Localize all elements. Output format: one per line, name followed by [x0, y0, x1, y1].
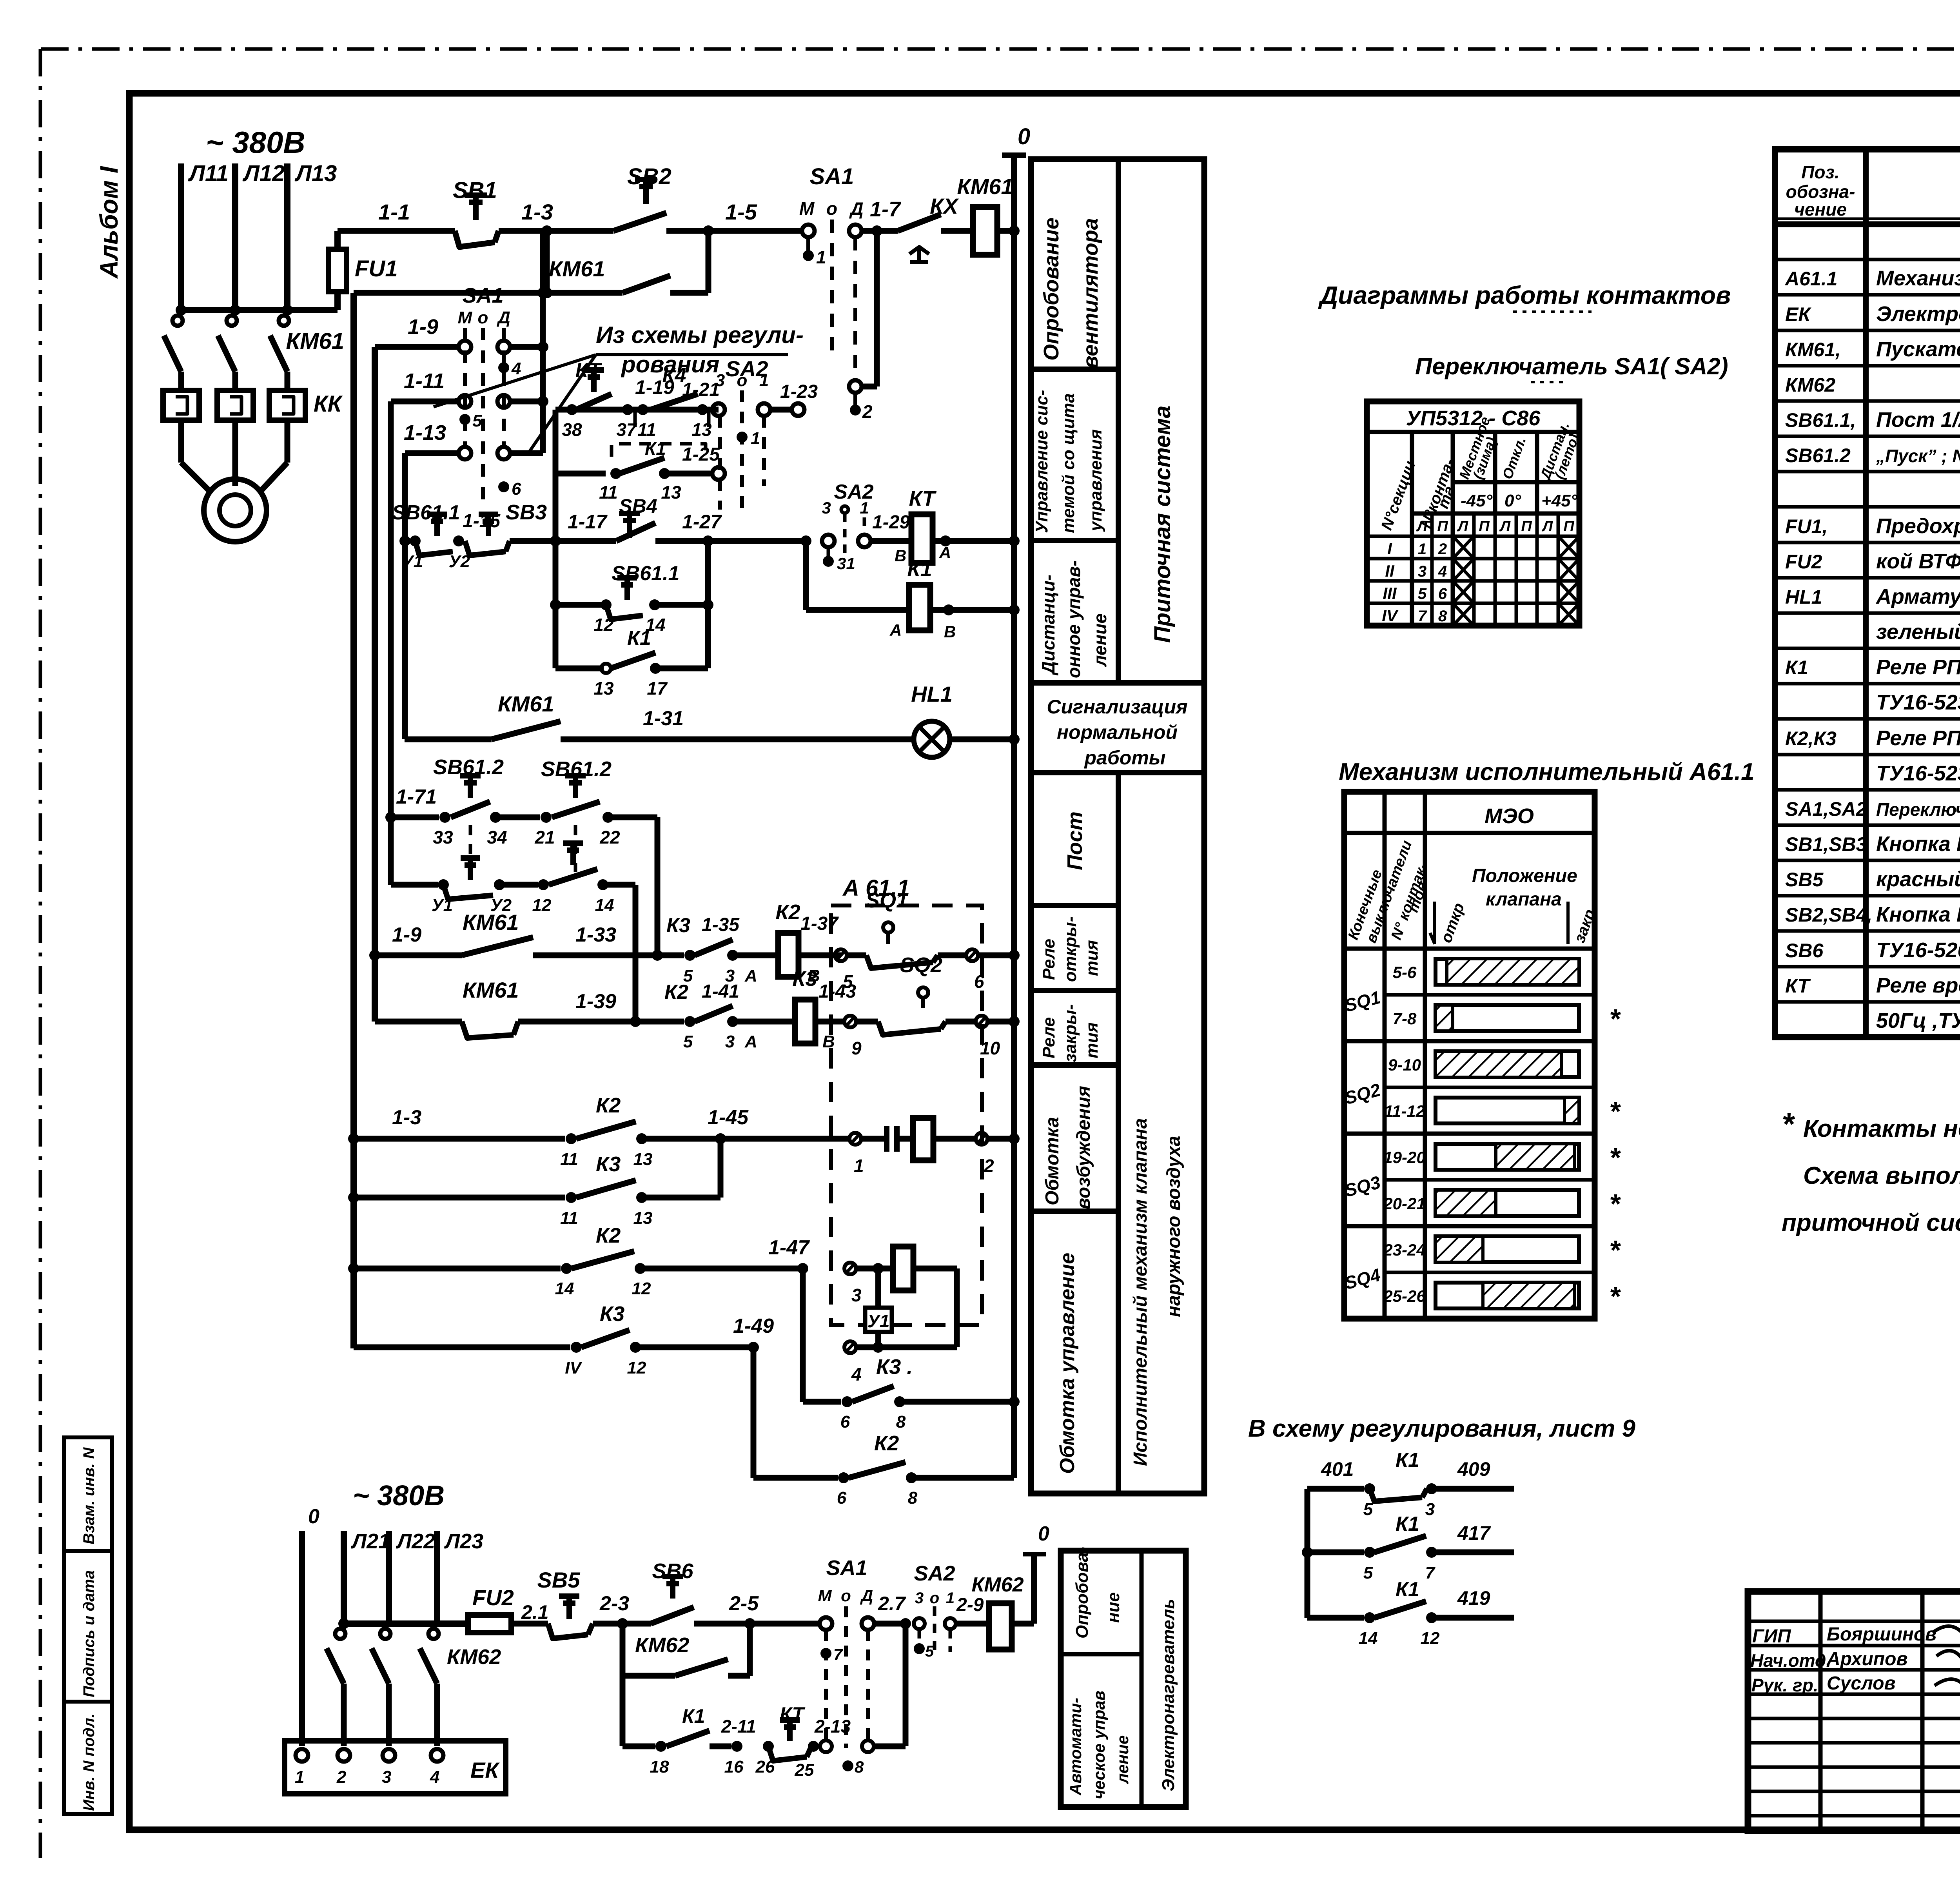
svg-text:ТУ16-520. 407-79: ТУ16-520. 407-79 [1876, 938, 1960, 962]
svg-text:М: М [818, 1586, 832, 1605]
svg-text:К2: К2 [596, 1094, 621, 1117]
svg-text:КХ: КХ [930, 194, 959, 218]
svg-text:1-21: 1-21 [682, 379, 720, 400]
svg-text:о: о [826, 198, 837, 219]
MEO travel bars [1436, 959, 1579, 985]
svg-text:К1: К1 [1785, 657, 1808, 679]
wire vertical 1621 [633, 885, 639, 1022]
svg-text:К1: К1 [1396, 1513, 1419, 1535]
node 1-3 [541, 225, 552, 236]
svg-text:2: 2 [984, 1156, 994, 1176]
svg-text:Переключатель УП5312-С86У3,ТУ1: Переключатель УП5312-С86У3,ТУ16-524.074-… [1876, 799, 1960, 820]
contact KM61 with break rung 1-39 [462, 1022, 514, 1038]
wire vertical from 1-49 [751, 1347, 757, 1478]
svg-text:IV: IV [565, 1358, 583, 1377]
relay contact K1 rung 417 [1374, 1536, 1426, 1552]
svg-text:Пост 1/2”, ПКЕ 212-243 ; N1-: Пост 1/2”, ПКЕ 212-243 ; N1-Ц, 4, 1р+13, [1876, 408, 1960, 432]
wire rung KT K4 [555, 407, 719, 413]
svg-text:13: 13 [633, 1208, 653, 1228]
svg-text:К2: К2 [664, 981, 688, 1003]
wire vertical 2.7 to KT rung [903, 1624, 909, 1746]
wire rung SB61.1-SB3 [405, 538, 410, 544]
svg-text:Д: Д [860, 1586, 873, 1605]
svg-text:Диаграммы работы контактов: Диаграммы работы контактов [1318, 281, 1731, 309]
svg-text:КТ: КТ [780, 1703, 806, 1725]
relay contact K2 14-12 [572, 1251, 634, 1268]
svg-text:Из схемы регули-: Из схемы регули- [596, 322, 804, 348]
svg-text:0: 0 [1038, 1522, 1049, 1545]
svg-text:Л11: Л11 [188, 161, 229, 186]
switch SA1 contacts on rung 1 [802, 225, 815, 237]
svg-text:18: 18 [650, 1757, 669, 1776]
function label table [1031, 159, 1204, 1493]
svg-text:Опробова-: Опробова- [1073, 1547, 1092, 1639]
svg-text:Л22: Л22 [396, 1530, 435, 1553]
wire 1-5 [666, 228, 802, 234]
push-button contact 12-14 [549, 869, 597, 885]
wire rung 1-45 [354, 1136, 565, 1142]
phase line L23 [434, 1531, 440, 1624]
svg-text:Пост: Пост [1063, 811, 1087, 870]
svg-text:3: 3 [715, 371, 725, 390]
switch SA1 contact 1-11 [459, 395, 471, 408]
svg-text:1-11: 1-11 [404, 369, 445, 393]
wire rung 1-39 [375, 1019, 462, 1025]
svg-text:38: 38 [562, 419, 582, 440]
svg-text:Взам. инв. N: Взам. инв. N [80, 1447, 98, 1544]
svg-text:Пускатель магнитный: Пускатель магнитный [1876, 338, 1960, 361]
svg-text:Предохранитель ППТ-10, с плав: Предохранитель ППТ-10, с плавкой Встав- [1876, 514, 1960, 538]
wire vertical 1-27 [705, 541, 711, 668]
svg-text:1-29: 1-29 [872, 512, 910, 533]
svg-text:1: 1 [860, 499, 869, 517]
relay coil K3 [795, 1000, 815, 1043]
contactor coil KM61 [941, 228, 973, 234]
svg-text:34: 34 [487, 827, 507, 847]
svg-text:2-13: 2-13 [814, 1716, 851, 1737]
wire K1 ladder rail [1305, 1489, 1310, 1618]
svg-text:HL1: HL1 [911, 682, 953, 706]
title block frame [1748, 1591, 1960, 1831]
svg-text:*: * [1782, 1107, 1795, 1141]
wire vertical from 1-47 [800, 1268, 806, 1402]
svg-text:ление: ление [1113, 1735, 1132, 1784]
actuator block A61.1 dashed box [831, 905, 982, 1325]
svg-text:Л21: Л21 [350, 1530, 390, 1553]
wire vertical 1677 [655, 817, 661, 955]
svg-text:*: * [1609, 1003, 1621, 1034]
svg-text:7: 7 [1425, 1563, 1436, 1582]
svg-text:КТ: КТ [1785, 975, 1811, 997]
svg-text:Л: Л [1499, 518, 1511, 535]
svg-text:М: М [799, 198, 815, 219]
svg-text:SB6: SB6 [1785, 940, 1824, 962]
svg-text:приточной системы П1 она а: приточной системы П1 она аналогична при … [1782, 1209, 1960, 1236]
svg-text:6: 6 [1438, 585, 1447, 602]
switch SA2 bottom circuit [914, 1618, 925, 1629]
contact KM61 aux [622, 276, 670, 293]
wire SA1 feeder vertical [540, 231, 546, 453]
svg-text:откры-: откры- [1061, 916, 1080, 982]
svg-text:Положение: Положение [1472, 866, 1577, 886]
svg-text:1-33: 1-33 [575, 924, 616, 946]
svg-text:ТУ16-523. 331-78: ТУ16-523. 331-78 [1876, 691, 1960, 714]
svg-text:МЭО: МЭО [1485, 804, 1534, 828]
svg-text:*: * [1609, 1096, 1621, 1127]
power bus wire [181, 307, 338, 313]
svg-text:5: 5 [1363, 1500, 1373, 1519]
svg-text:Дистанци-: Дистанци- [1038, 575, 1058, 676]
svg-text:*: * [1609, 1281, 1621, 1312]
svg-text:Механизм исполнительный А61.1: Механизм исполнительный А61.1 [1339, 758, 1755, 786]
switch SA1 contacts on KT rung [820, 1740, 832, 1752]
push-button SB61.2 contact a [451, 802, 490, 817]
svg-text:*: * [1609, 1235, 1621, 1265]
svg-text:2: 2 [336, 1767, 347, 1787]
svg-text:1-17: 1-17 [568, 511, 608, 533]
svg-text:1: 1 [854, 1156, 864, 1176]
svg-text:1-47: 1-47 [768, 1236, 810, 1259]
svg-text:Суслов: Суслов [1827, 1673, 1896, 1694]
svg-text:2.1: 2.1 [521, 1601, 549, 1623]
svg-text:возбуждения: возбуждения [1073, 1086, 1094, 1209]
svg-text:2-11: 2-11 [721, 1716, 756, 1737]
svg-text:8: 8 [1438, 608, 1447, 625]
svg-text:SB61.2: SB61.2 [1785, 445, 1851, 466]
svg-text:А: А [744, 966, 757, 985]
svg-text:2.7: 2.7 [878, 1593, 906, 1615]
svg-text:50Гц ,ТУ16-647. 014-84: 50Гц ,ТУ16-647. 014-84 [1876, 1009, 1960, 1032]
title block left grid [1818, 1591, 1823, 1831]
svg-text:17: 17 [647, 678, 668, 699]
svg-text:1: 1 [295, 1767, 304, 1787]
svg-text:Переключатель SA1( SA2): Переключатель SA1( SA2) [1415, 353, 1728, 379]
svg-text:8: 8 [855, 1758, 864, 1776]
svg-text:1-27: 1-27 [682, 511, 722, 533]
svg-text:кой ВТФ6, ТУ16-521.037-75: кой ВТФ6, ТУ16-521.037-75 [1876, 550, 1960, 573]
limit switch SQ2 [918, 987, 928, 998]
svg-text:4: 4 [851, 1364, 862, 1384]
svg-text:В схему регулирования, лист 9: В схему регулирования, лист 9 [1248, 1415, 1635, 1442]
wire rung 1-71 [391, 815, 439, 820]
svg-text:1-43: 1-43 [818, 981, 856, 1002]
phase line L21 [341, 1531, 347, 1624]
svg-text:SB2,SB4,: SB2,SB4, [1785, 904, 1872, 926]
svg-text:1-45: 1-45 [708, 1106, 749, 1129]
wire rung K3 11-13 [354, 1195, 565, 1201]
svg-text:А 61.1: А 61.1 [842, 875, 910, 901]
push-button contact U1 [443, 885, 493, 899]
svg-text:П: П [1437, 518, 1448, 535]
wire rung 1-13 [405, 450, 459, 456]
svg-text:1-31: 1-31 [643, 707, 684, 730]
switch SA1 contact 1-9 [459, 341, 471, 353]
svg-text:КМ62: КМ62 [447, 1645, 501, 1669]
wire to node 1-3 [499, 228, 613, 234]
svg-text:Л12: Л12 [242, 161, 285, 186]
svg-text:20-21: 20-21 [1383, 1194, 1425, 1213]
contactor KM62 main contacts [335, 1629, 345, 1639]
svg-text:SB6: SB6 [652, 1559, 693, 1583]
svg-text:1-3: 1-3 [392, 1106, 421, 1129]
svg-text:5-6: 5-6 [1393, 963, 1417, 982]
svg-text:13: 13 [661, 482, 681, 503]
svg-text:КМ62: КМ62 [635, 1633, 689, 1657]
svg-text:М: М [458, 308, 473, 327]
relay contact K1 rung 13-17 [555, 666, 604, 671]
svg-text:1-1: 1-1 [378, 200, 410, 224]
svg-text:К1: К1 [1396, 1578, 1419, 1601]
wire vertical to K1 coil [803, 541, 809, 610]
svg-text:14: 14 [1359, 1629, 1378, 1648]
svg-text:3: 3 [1425, 1500, 1435, 1519]
contact KM62 aux [620, 1624, 626, 1676]
svg-text:FU2: FU2 [472, 1585, 514, 1610]
svg-text:0°: 0° [1504, 491, 1521, 510]
svg-text:1-5: 1-5 [725, 200, 757, 224]
wire 1-31 [561, 737, 914, 742]
svg-text:А: А [744, 1032, 757, 1051]
contact KM61 on lamp rung [405, 737, 492, 742]
relay contact K2 6-8 [753, 1475, 838, 1481]
svg-text:Альбом I: Альбом I [95, 166, 123, 279]
relay contact K2 rung 1-39 [635, 1019, 684, 1025]
parts list table [1775, 149, 1960, 1037]
svg-text:Кнопка КЕ011У3, исполнение 5,: Кнопка КЕ011У3, исполнение 5, толкатель [1876, 832, 1960, 856]
svg-text:401: 401 [1321, 1458, 1354, 1480]
terminal 3 of A61.1 [844, 1263, 856, 1274]
svg-text:К1: К1 [907, 557, 932, 581]
relay contact K1 rung 1-25 [555, 471, 606, 477]
svg-text:1: 1 [816, 247, 826, 267]
wire rung U1-U2 [391, 882, 438, 888]
svg-text:В: В [895, 546, 906, 565]
svg-text:SB61.2: SB61.2 [541, 757, 612, 781]
svg-text:11: 11 [560, 1150, 578, 1169]
svg-text:К1: К1 [682, 1705, 705, 1727]
node 2-3 [617, 1618, 628, 1629]
push-button SB61.2 second pole rung [555, 602, 606, 608]
svg-text:ГИП: ГИП [1752, 1626, 1791, 1647]
svg-text:2: 2 [862, 401, 873, 422]
svg-text:Л13: Л13 [294, 161, 337, 186]
svg-text:К2: К2 [596, 1224, 621, 1247]
wire control rung 1 [338, 228, 455, 234]
svg-text:12: 12 [632, 1279, 651, 1298]
svg-text:П: П [1521, 518, 1532, 535]
svg-text:КК: КК [314, 391, 343, 417]
wire rung 1-9 [375, 344, 459, 350]
svg-text:SB1,SB3: SB1,SB3 [1785, 833, 1867, 855]
svg-text:5: 5 [472, 411, 482, 430]
svg-text:Реле РПУ2-364023У3, ~220В, 5: Реле РПУ2-364023У3, ~220В, 50Гц, [1876, 655, 1960, 679]
svg-text:SB4: SB4 [619, 495, 657, 517]
svg-text:3: 3 [1418, 563, 1426, 580]
terminal 6 of A61.1 [966, 949, 978, 961]
terminal 4 of A61.1 [844, 1341, 856, 1353]
svg-text:вентилятора: вентилятора [1079, 218, 1102, 368]
svg-text:ческое управ: ческое управ [1090, 1691, 1108, 1799]
push-button SB4 [555, 538, 616, 544]
fuse FU2 [468, 1615, 511, 1633]
svg-text:~ 380В: ~ 380В [353, 1480, 445, 1512]
svg-text:ЕК: ЕК [1785, 303, 1811, 325]
svg-text:КМ61: КМ61 [286, 328, 344, 354]
svg-text:8: 8 [896, 1412, 906, 1432]
phase line L12 [232, 163, 238, 310]
svg-text:КМ61: КМ61 [498, 691, 554, 716]
svg-text:1-37: 1-37 [800, 913, 839, 934]
wire rung 419 [1307, 1615, 1364, 1621]
svg-text:онное управ-: онное управ- [1063, 560, 1084, 678]
svg-text:У1: У1 [867, 1311, 890, 1331]
svg-text:7: 7 [833, 1645, 843, 1664]
wire rung 1-47 [354, 1266, 561, 1272]
svg-text:1-41: 1-41 [702, 981, 739, 1002]
svg-text:FU2: FU2 [1785, 551, 1822, 573]
actuator table MEO [1344, 792, 1595, 1319]
svg-text:SB61.1,: SB61.1, [1785, 409, 1856, 431]
svg-text:3: 3 [915, 1590, 924, 1607]
push-button SB5 [511, 1621, 548, 1627]
svg-text:13: 13 [633, 1150, 653, 1169]
svg-text:Инв. N подл.: Инв. N подл. [80, 1713, 98, 1811]
svg-text:Реле: Реле [1039, 1017, 1058, 1058]
svg-text:25: 25 [795, 1760, 814, 1780]
svg-text:1-71: 1-71 [396, 786, 437, 808]
svg-text:11: 11 [560, 1208, 578, 1228]
svg-text:Л: Л [1416, 518, 1428, 535]
heater EK terminals [296, 1749, 308, 1762]
terminal 5 of A61.1 [835, 949, 847, 961]
svg-text:Д: Д [496, 308, 510, 327]
svg-text:1-25: 1-25 [682, 444, 720, 465]
svg-text:33: 33 [433, 827, 453, 847]
svg-text:Л: Л [1541, 518, 1553, 535]
svg-text:Кнопка КЕ011У3, исполнение 4,: Кнопка КЕ011У3, исполнение 4, [1876, 903, 1960, 926]
svg-text:К1: К1 [1396, 1449, 1419, 1472]
limit switch SQ1 [883, 922, 893, 933]
svg-text:КМ62: КМ62 [971, 1573, 1024, 1596]
contactor coil KM62 [989, 1603, 1012, 1649]
wire feeder 1-11 vertical [388, 401, 394, 885]
svg-text:14: 14 [595, 896, 614, 915]
svg-text:Реле: Реле [1039, 939, 1058, 980]
svg-text:SA2: SA2 [914, 1562, 955, 1585]
relay coil K1 [806, 607, 909, 613]
svg-text:работы: работы [1083, 747, 1165, 769]
svg-text:FU1: FU1 [355, 256, 398, 281]
svg-text:16: 16 [724, 1757, 744, 1776]
svg-text:КМ61: КМ61 [463, 910, 519, 934]
svg-text:SB5: SB5 [1785, 869, 1824, 891]
svg-text:SB2: SB2 [627, 164, 671, 189]
svg-text:Рук. гр.: Рук. гр. [1751, 1675, 1818, 1695]
svg-text:1-7: 1-7 [870, 198, 902, 221]
svg-text:3: 3 [851, 1285, 862, 1305]
svg-text:419: 419 [1457, 1587, 1490, 1609]
svg-text:SA1: SA1 [826, 1556, 867, 1580]
wire right side of control winding [954, 1268, 960, 1347]
svg-text:К2: К2 [874, 1432, 899, 1455]
relay contact K1 bottom [620, 1676, 626, 1746]
svg-text:ТУ16-523.331-78: ТУ16-523.331-78 [1876, 762, 1960, 785]
svg-text:КМ61: КМ61 [549, 256, 605, 281]
svg-text:417: 417 [1457, 1522, 1491, 1544]
svg-text:4: 4 [430, 1767, 439, 1787]
phase line L22 [386, 1531, 392, 1624]
svg-text:К3: К3 [792, 967, 817, 991]
svg-text:Д: Д [849, 198, 863, 219]
svg-text:Автомати-: Автомати- [1066, 1698, 1085, 1796]
svg-text:7: 7 [1418, 608, 1427, 625]
fuse FU1 [334, 231, 341, 310]
svg-text:III: III [1383, 584, 1397, 602]
svg-text:1-49: 1-49 [733, 1315, 774, 1337]
capacitor [861, 1136, 887, 1142]
svg-text:о: о [930, 1590, 939, 1607]
svg-text:6: 6 [840, 1412, 850, 1432]
svg-text:2-3: 2-3 [599, 1592, 629, 1615]
svg-text:6: 6 [512, 479, 521, 499]
svg-text:КМ61: КМ61 [463, 978, 519, 1002]
left margin strip table [64, 1437, 112, 1814]
push-button SB2 [613, 213, 666, 231]
contactor KM61 main contacts [172, 316, 183, 326]
svg-text:Опробование: Опробование [1040, 218, 1063, 361]
svg-text:Управление сис-: Управление сис- [1032, 390, 1051, 533]
svg-text:19-20: 19-20 [1383, 1148, 1425, 1167]
relay contact K4 [651, 394, 698, 410]
phase line L13 [284, 163, 290, 310]
wire rung 1-49 [354, 1345, 570, 1350]
svg-text:2-9: 2-9 [956, 1595, 984, 1615]
wire left rail B [372, 347, 378, 1022]
time relay contact KT bottom [768, 1746, 807, 1761]
svg-text:SQ2: SQ2 [900, 953, 942, 977]
lamp HL1 [914, 721, 950, 757]
relay contact K3 IV-12 [581, 1330, 630, 1347]
wire rail HL1 rung [402, 453, 408, 739]
vertical wire from node 1-3 [544, 231, 550, 293]
wire 0-bus vertical rail [1011, 155, 1017, 1478]
svg-text:В: В [822, 1032, 835, 1051]
svg-text:чение: чение [1794, 199, 1847, 220]
svg-text:наружного воздуха: наружного воздуха [1163, 1136, 1184, 1317]
svg-text:3: 3 [822, 499, 831, 517]
svg-text:0: 0 [308, 1505, 319, 1528]
svg-text:КМ61: КМ61 [957, 174, 1013, 199]
svg-text:Л: Л [1457, 518, 1468, 535]
svg-text:Исполнительный механизм клапан: Исполнительный механизм клапана [1130, 1118, 1151, 1466]
svg-text:А: А [889, 621, 902, 639]
svg-text:К1: К1 [627, 627, 651, 650]
relay contact K2 rung 1-45 [576, 1121, 636, 1139]
time relay coil KT [871, 538, 911, 544]
svg-text:Подпись и дата: Подпись и дата [80, 1570, 98, 1697]
svg-text:1: 1 [1418, 541, 1426, 558]
svg-text:3: 3 [382, 1767, 391, 1787]
relay contact K1 rung 419 [1374, 1601, 1426, 1618]
svg-text:Обмотка управление: Обмотка управление [1056, 1253, 1079, 1474]
svg-text:SA1: SA1 [810, 164, 854, 189]
svg-text:5: 5 [683, 1032, 693, 1051]
svg-text:SB61.1: SB61.1 [612, 562, 679, 585]
control winding coil [893, 1247, 913, 1290]
svg-text:Л23: Л23 [444, 1530, 483, 1553]
winding coil (excitation) [913, 1118, 933, 1160]
svg-text:+45°: +45° [1541, 491, 1578, 510]
